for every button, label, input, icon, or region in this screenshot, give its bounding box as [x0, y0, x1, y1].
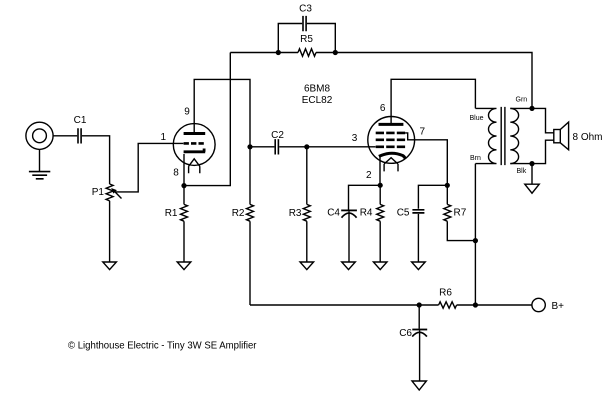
svg-text:1: 1: [161, 132, 167, 143]
svg-text:Grn: Grn: [516, 97, 528, 104]
ground (R4): [373, 262, 387, 270]
resistor R7: [444, 185, 476, 240]
earth ground (input): [29, 172, 50, 179]
wire U1a cathode down to node: [183, 154, 185, 186]
wire R6 to B+: [457, 304, 532, 306]
wire Blk to ground: [531, 164, 533, 185]
node Grn: [529, 106, 534, 111]
resistor R4: [377, 185, 384, 262]
svg-text:C6: C6: [399, 328, 412, 339]
B+ rail wire: [250, 304, 419, 306]
wire C2 node left: [250, 146, 274, 148]
resistor R5: [298, 49, 316, 56]
svg-text:2: 2: [366, 170, 372, 181]
capacitor C3 branch: [278, 24, 335, 53]
grid of U1a: [184, 142, 204, 145]
wire screen node to C5: [418, 185, 447, 209]
grids of U1b: [376, 132, 405, 135]
svg-text:Blk: Blk: [517, 168, 527, 175]
svg-text:9: 9: [184, 107, 190, 118]
ground (C6): [412, 381, 426, 390]
svg-text:C4: C4: [327, 208, 340, 219]
capacitor C1: [78, 128, 81, 143]
heater of U1a: [189, 159, 200, 173]
node R7 to primary lead: [473, 238, 478, 243]
capacitor C6 (polarized): [418, 305, 420, 329]
svg-text:C3: C3: [299, 4, 312, 15]
cathode of U1a: [184, 149, 206, 152]
svg-text:R3: R3: [289, 208, 302, 219]
resistor R1: [181, 186, 188, 262]
svg-text:C2: C2: [271, 130, 284, 141]
wire R5 left: [278, 52, 298, 54]
wire P1 wiper to U1a grid: [115, 143, 184, 192]
wire primary bottom to B+ rail: [474, 164, 476, 305]
svg-text:Brn: Brn: [470, 155, 481, 162]
node screen (C5/R7): [445, 183, 450, 188]
node C2 left: [247, 144, 252, 149]
wire C5 to ground: [417, 214, 419, 262]
svg-text:C5: C5: [397, 208, 410, 219]
wire jack to C1: [53, 135, 77, 137]
svg-text:R4: R4: [360, 208, 373, 219]
wire screen step to pin7 line: [405, 133, 447, 185]
wire secondary top (Grn): [510, 108, 554, 132]
pentode U1b (6BM8 pentode section): [368, 116, 415, 163]
svg-text:R7: R7: [454, 208, 467, 219]
potentiometer P1: [106, 184, 113, 201]
transformer T1 secondary: [510, 108, 518, 163]
ground (P1): [103, 262, 117, 270]
speaker LS1: [554, 130, 561, 143]
wire C1 to P1 top: [82, 136, 110, 184]
wiper arrow of P1: [113, 190, 122, 199]
svg-text:7: 7: [420, 127, 426, 138]
node R5/C3 right: [333, 50, 338, 55]
svg-text:P1: P1: [92, 187, 105, 198]
ground (R1): [177, 262, 191, 270]
resistor R3: [303, 147, 310, 262]
ground (R3): [300, 262, 314, 270]
wire U1a plate to C2 node: [194, 79, 250, 146]
svg-text:R1: R1: [165, 208, 178, 219]
svg-text:B+: B+: [552, 301, 565, 312]
wire P1 bottom to ground: [109, 201, 111, 262]
svg-text:6: 6: [380, 103, 386, 114]
svg-text:R2: R2: [232, 208, 245, 219]
node Blk: [529, 161, 534, 166]
resistor R2: [247, 147, 254, 305]
capacitor C3 plates: [303, 16, 306, 31]
plate of U1a: [184, 132, 206, 135]
triode U1a (6BM8 triode section): [173, 124, 215, 166]
node C2 right: [304, 144, 309, 149]
wire U1b plate to transformer primary: [391, 79, 475, 123]
node rail/primary: [473, 302, 478, 307]
plate of U1b: [379, 123, 404, 126]
svg-text:Blue: Blue: [470, 115, 484, 122]
feedback line left segment: [230, 52, 278, 54]
node cathode U1b: [378, 183, 383, 188]
node C6 tap: [417, 302, 422, 307]
ground (C5): [412, 262, 426, 270]
capacitor C2: [275, 139, 278, 154]
node cathode U1a: [181, 183, 186, 188]
capacitor C4 (polarized): [341, 209, 357, 211]
svg-text:8 Ohm: 8 Ohm: [573, 132, 603, 143]
wire C6 to ground: [419, 330, 421, 381]
svg-text:R5: R5: [300, 34, 313, 45]
resistor R6: [439, 302, 457, 308]
wire C4 to ground: [348, 211, 350, 262]
svg-text:R6: R6: [439, 287, 452, 298]
input jack J1: [26, 122, 53, 149]
wire cathode node to feedback riser: [184, 53, 230, 186]
wire C2 to U1b grid: [279, 146, 375, 148]
svg-text:ECL82: ECL82: [302, 95, 333, 106]
ground (C4): [342, 262, 356, 270]
ground (speaker return): [525, 184, 539, 193]
wire secondary bottom (Blk): [510, 140, 554, 163]
node R5/C3 left: [276, 50, 281, 55]
wire jack to earth ground: [39, 149, 41, 171]
svg-text:© Lighthouse Electric - Tiny 3: © Lighthouse Electric - Tiny 3W SE Ampli…: [68, 341, 257, 352]
cathode of U1b: [379, 153, 405, 159]
svg-text:C1: C1: [74, 115, 87, 126]
heater of U1b: [384, 158, 398, 172]
transformer T1 primary: [475, 108, 496, 163]
wire rail to R6: [419, 304, 438, 306]
svg-text:8: 8: [173, 168, 179, 179]
wire cathode node to C4: [349, 185, 381, 209]
transformer core: [501, 107, 505, 165]
svg-text:6BM8: 6BM8: [304, 84, 331, 95]
wire U1b cathode down: [379, 156, 381, 186]
B+ terminal: [532, 298, 545, 311]
svg-text:3: 3: [352, 133, 358, 144]
capacitor C5: [412, 210, 424, 213]
feedback wire to Grn: [335, 53, 532, 109]
wire R5 right: [316, 52, 335, 54]
